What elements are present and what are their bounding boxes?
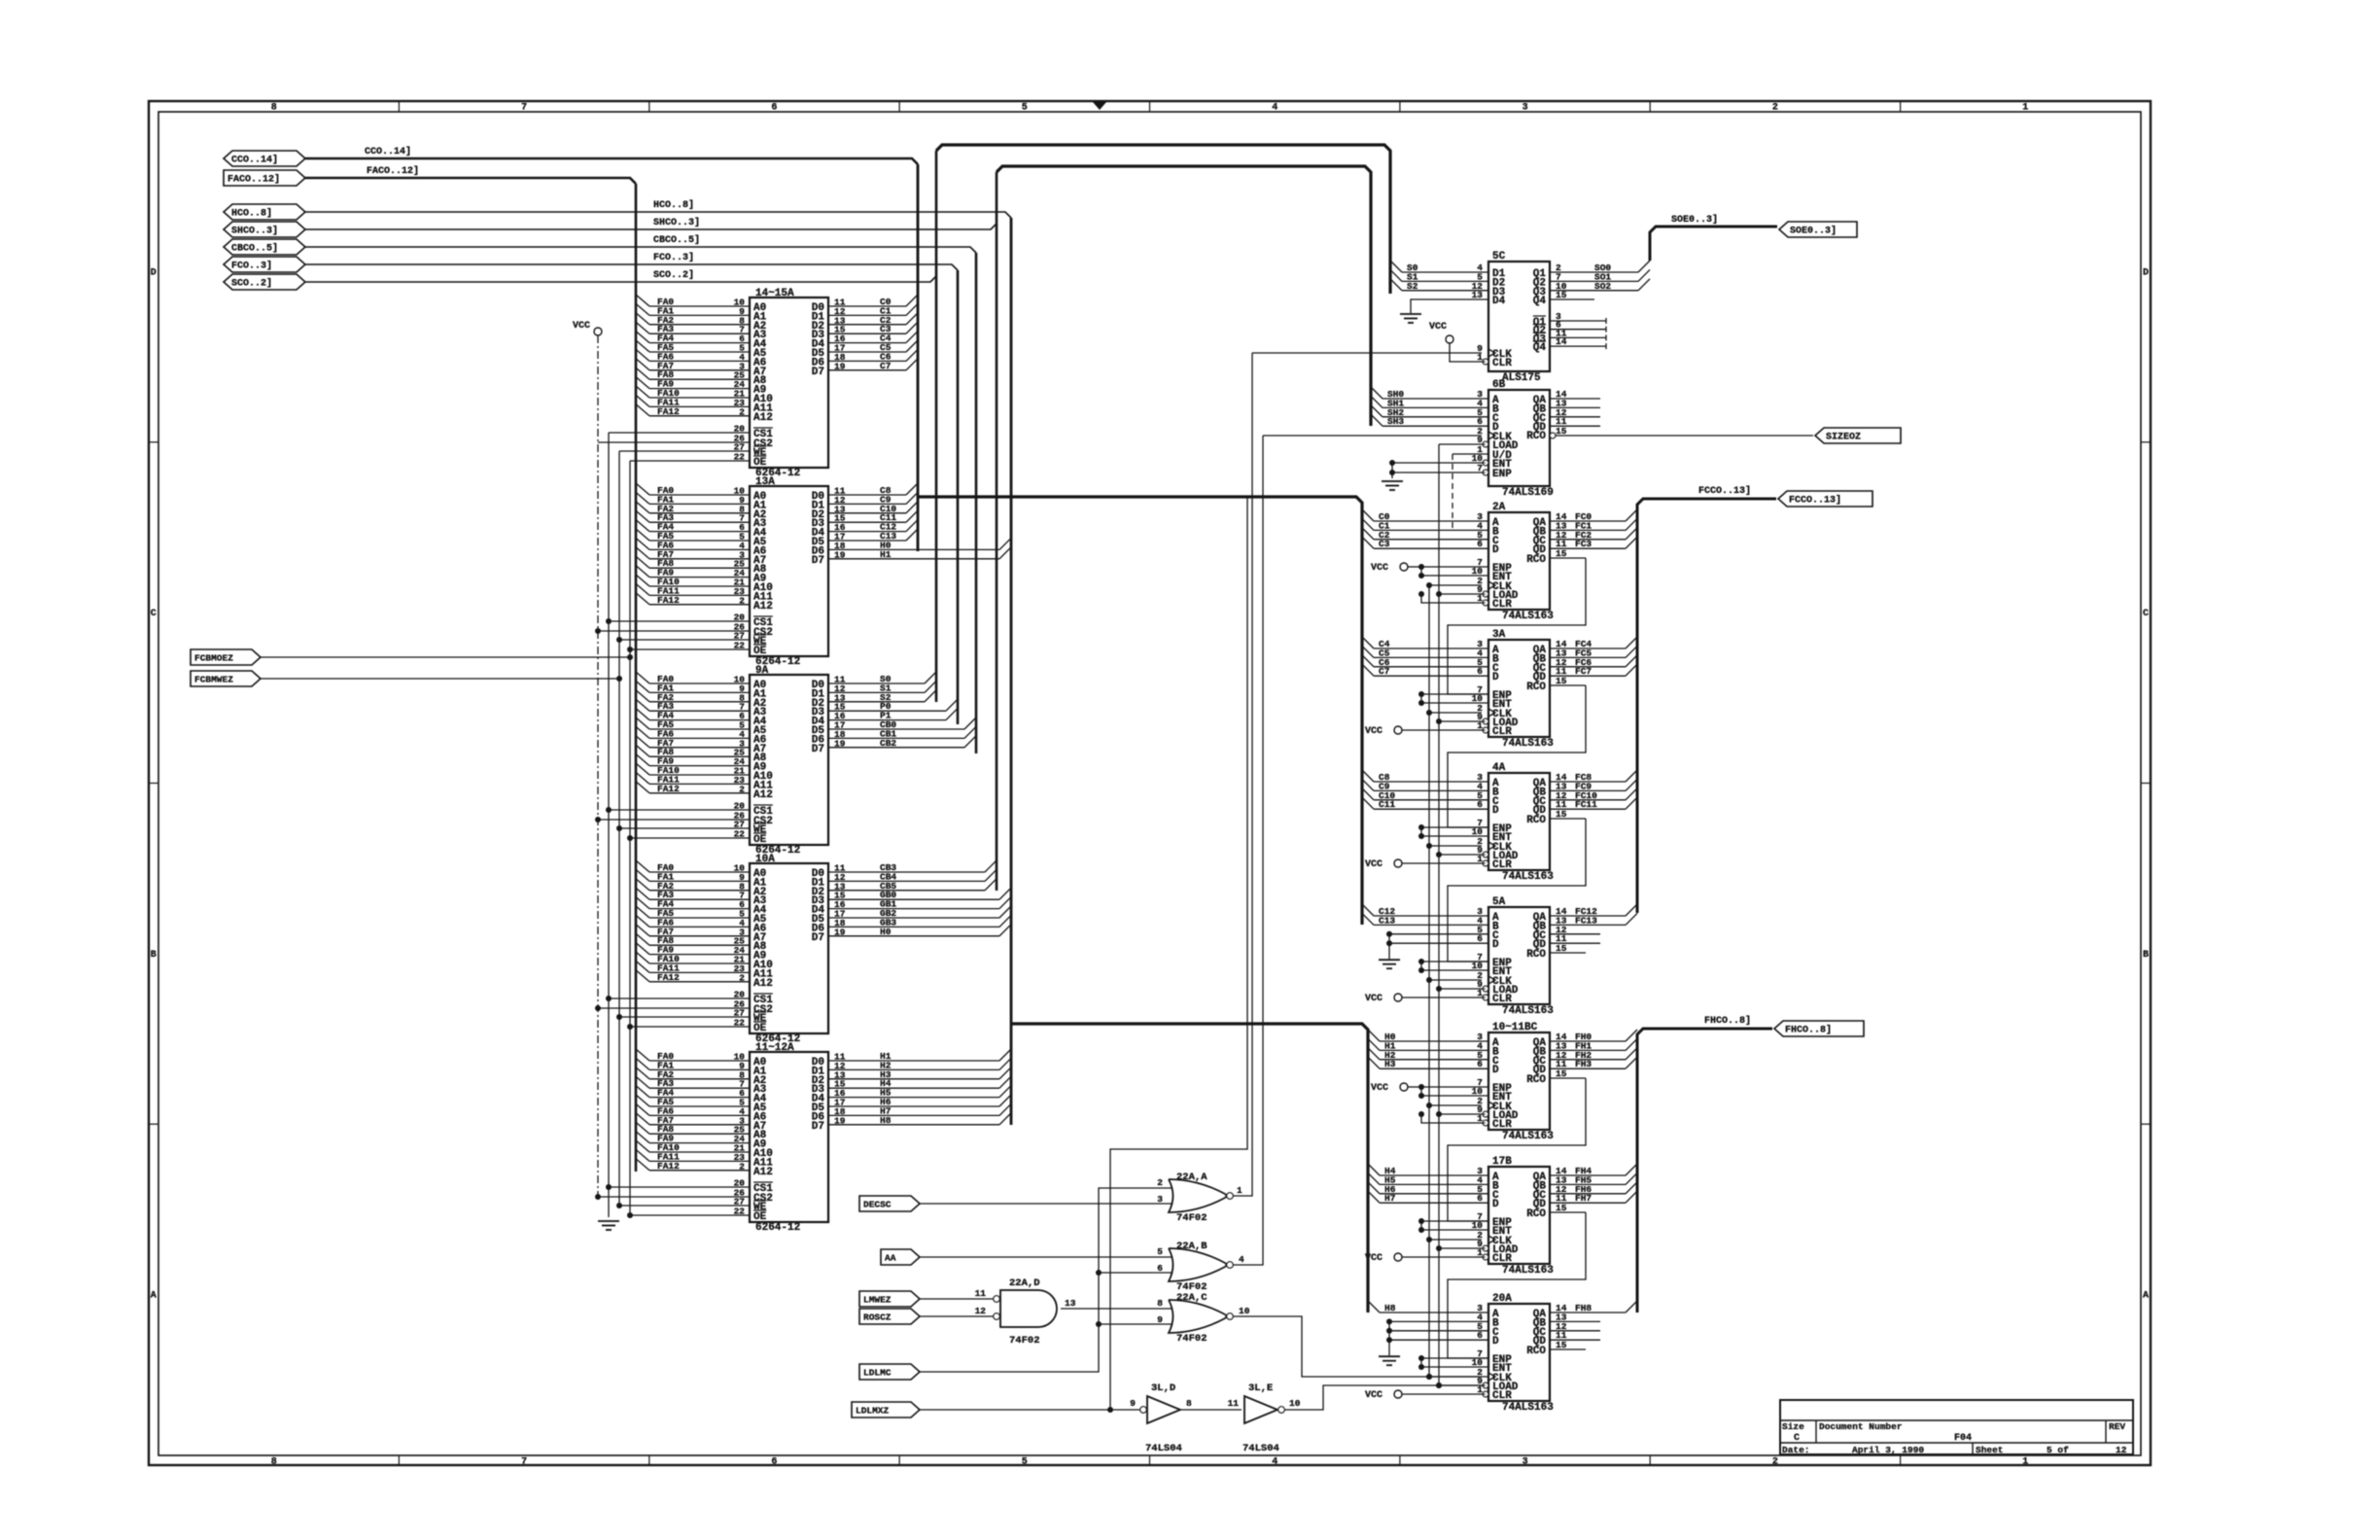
svg-text:74ALS163: 74ALS163 [1502, 611, 1554, 622]
wire C bus horizontal y511 to counters [918, 497, 1362, 925]
power VCC at 3A CLR [1365, 726, 1486, 737]
wire ENP ENT tie 5A [1418, 959, 1488, 973]
wire CLK chain vertical x1470 [1428, 585, 1430, 1377]
svg-text:OE: OE [753, 1023, 767, 1034]
node FCO..3] input tag [224, 257, 305, 272]
svg-text:RCO: RCO [1526, 1074, 1546, 1086]
svg-text:S2: S2 [1407, 281, 1418, 292]
svg-text:3: 3 [1522, 1457, 1528, 1468]
svg-text:4A: 4A [1492, 762, 1506, 774]
wire 22A,A output up to 5C CLK [1233, 353, 1252, 1196]
wire SHCO..3] joins vertical 1025 [305, 224, 997, 229]
svg-text:FA12: FA12 [657, 972, 680, 983]
svg-text:10: 10 [1239, 1306, 1250, 1316]
wire FH bus vertical to FHCO tag [1637, 1015, 1772, 1312]
svg-text:April 3, 1990: April 3, 1990 [1852, 1445, 1924, 1455]
wire input taps 4A [1362, 770, 1488, 810]
svg-text:FCO..3]: FCO..3] [653, 252, 694, 263]
wire CLK feed 4A [1426, 843, 1482, 849]
svg-text:VCC: VCC [1429, 322, 1447, 332]
svg-text:D: D [1492, 1065, 1499, 1076]
svg-text:7: 7 [521, 1457, 527, 1468]
svg-text:A12: A12 [753, 789, 773, 801]
wire ENP ENT tie 20A [1418, 1355, 1488, 1370]
svg-text:SHCO..3]: SHCO..3] [231, 226, 278, 237]
svg-text:2: 2 [1772, 103, 1778, 114]
svg-text:B: B [2143, 950, 2149, 961]
svg-text:22A,A: 22A,A [1176, 1172, 1207, 1183]
wire SH bus top horizontal to 6B [997, 166, 1371, 426]
power VCC at 20A CLR [1365, 1390, 1486, 1401]
svg-text:CLR: CLR [1492, 726, 1512, 738]
wire CBCO..5] to vertical [305, 247, 976, 253]
svg-text:6264-12: 6264-12 [755, 1222, 800, 1234]
wire vertical x1025 [996, 172, 998, 891]
svg-text:SO2: SO2 [1594, 281, 1611, 292]
svg-text:CLR: CLR [1492, 358, 1512, 369]
wire input taps 17B [1368, 1164, 1488, 1204]
svg-text:8: 8 [271, 103, 277, 114]
wire ENP ENT tie 4A [1418, 824, 1488, 839]
svg-text:74F02: 74F02 [1176, 1212, 1207, 1224]
power VCC at 17B CLR [1365, 1253, 1486, 1264]
svg-text:74F02: 74F02 [1009, 1335, 1040, 1347]
wire output taps 20A [1550, 1301, 1637, 1349]
wire CCO..14] bus to vertical [305, 158, 918, 164]
svg-text:Size: Size [1782, 1421, 1804, 1432]
node AA input tag [881, 1249, 920, 1265]
svg-text:CLR: CLR [1492, 599, 1512, 611]
svg-text:74LS04: 74LS04 [1145, 1443, 1182, 1454]
wire CS1 chain vertical x626 to ground [608, 433, 610, 1217]
svg-text:D: D [1492, 544, 1499, 556]
wire 6B LOAD to load chain [1439, 443, 1486, 445]
svg-text:Sheet: Sheet [1976, 1445, 2004, 1455]
svg-text:OE: OE [753, 834, 767, 846]
svg-text:SCO..2]: SCO..2] [231, 278, 272, 290]
wire FC bus vertical to FCCO tag [1637, 485, 1776, 913]
svg-text:FH7: FH7 [1575, 1193, 1592, 1204]
power VCC at 5A CLR [1365, 994, 1486, 1004]
svg-text:4: 4 [1239, 1254, 1244, 1265]
net label CBCO..5] [653, 234, 700, 246]
svg-text:22A,D: 22A,D [1009, 1277, 1040, 1289]
svg-text:VCC: VCC [1365, 1253, 1382, 1264]
wire input taps 2A [1362, 509, 1488, 549]
wire ENP ENT tie 17B [1418, 1218, 1488, 1233]
wire vertical x985 [957, 270, 960, 724]
wire RCO cascade from 2A [1448, 558, 1586, 694]
svg-text:74ALS163: 74ALS163 [1502, 1265, 1554, 1277]
svg-text:74ALS163: 74ALS163 [1502, 1402, 1554, 1414]
counter 4A 74ALS163 [1472, 762, 1567, 883]
wire AA to 22A,B pin5 [920, 1256, 1172, 1258]
svg-text:C11: C11 [1379, 799, 1395, 810]
wire C bus vertical x944 [917, 164, 920, 551]
wire ENP ENT tie 10~11BC [1418, 1084, 1488, 1099]
wire CLR tied to LOAD 2A [1418, 591, 1486, 603]
svg-text:FCBMWEZ: FCBMWEZ [194, 675, 233, 685]
power VCC at 5C [1429, 322, 1486, 362]
wire input taps 10~11BC [1368, 1030, 1488, 1069]
wire LDLMXZ branch up to x1283 [1110, 497, 1247, 1410]
counter 20A 74ALS163 [1472, 1293, 1567, 1414]
wire vertical x963 [935, 151, 938, 702]
node DECSC input tag [859, 1196, 920, 1211]
wire input taps 3A [1362, 637, 1488, 677]
node FCBMWEZ input tag [191, 671, 261, 686]
wire input taps 5A [1362, 904, 1488, 926]
wire H bus vertical x1040 [1010, 218, 1013, 1125]
wire CLK feed 20A [1426, 1374, 1482, 1380]
pin numbers 22A,B [1157, 1246, 1244, 1274]
wire FCBMOEZ to OE chain [261, 656, 630, 658]
svg-text:5C: 5C [1492, 251, 1506, 262]
wire ENP ENT tie 2A [1418, 564, 1488, 578]
svg-text:CB2: CB2 [880, 738, 896, 749]
svg-text:FCBMOEZ: FCBMOEZ [194, 653, 233, 664]
svg-text:FA12: FA12 [657, 1161, 680, 1172]
wire RCO cascade from 3A [1448, 685, 1586, 827]
RAM 14~15A 6264-12 [598, 288, 918, 479]
svg-text:SCO..2]: SCO..2] [653, 269, 694, 281]
svg-text:12: 12 [2116, 1445, 2127, 1455]
svg-text:SIZEOZ: SIZEOZ [1826, 433, 1861, 443]
title block [1780, 1400, 2133, 1455]
svg-text:D: D [151, 267, 157, 278]
svg-text:SHCO..3]: SHCO..3] [653, 217, 700, 228]
svg-text:D7: D7 [812, 1121, 824, 1133]
wire FCO..3] to vertical [305, 264, 958, 270]
svg-text:6: 6 [771, 1457, 777, 1468]
svg-text:10A: 10A [755, 854, 775, 865]
svg-text:A12: A12 [753, 978, 773, 990]
svg-text:3L,E: 3L,E [1248, 1382, 1273, 1394]
svg-text:RCO: RCO [1526, 1346, 1546, 1357]
svg-text:CBCO..5]: CBCO..5] [653, 234, 700, 246]
svg-text:ROSCZ: ROSCZ [863, 1312, 892, 1323]
svg-text:DECSC: DECSC [863, 1200, 892, 1210]
svg-text:4: 4 [1272, 103, 1277, 114]
svg-text:Document Number: Document Number [1819, 1421, 1903, 1432]
svg-text:FH3: FH3 [1575, 1059, 1592, 1069]
wire 3L,E output to LOAD chain and 20A LOAD [1284, 1382, 1486, 1410]
svg-text:LDLMXZ: LDLMXZ [856, 1406, 890, 1417]
svg-text:FC7: FC7 [1575, 666, 1592, 677]
wire SCO..2] joins vertical 963 [305, 276, 936, 282]
svg-text:D4: D4 [1492, 296, 1506, 307]
svg-text:RCO: RCO [1526, 682, 1546, 693]
svg-text:2: 2 [1157, 1177, 1163, 1188]
svg-text:H7: H7 [1384, 1193, 1396, 1204]
svg-text:12: 12 [975, 1306, 987, 1316]
wire H bus horizontal y1053 to counters [1011, 1024, 1368, 1312]
svg-text:11: 11 [975, 1288, 987, 1299]
svg-text:CLR: CLR [1492, 994, 1512, 1005]
svg-text:5: 5 [1022, 103, 1028, 114]
svg-text:2A: 2A [1492, 502, 1506, 513]
svg-text:CLR: CLR [1492, 1390, 1512, 1402]
wire input taps 20A [1368, 1301, 1488, 1313]
svg-text:RCO: RCO [1526, 949, 1546, 961]
svg-text:ENP: ENP [1492, 469, 1512, 480]
svg-text:5: 5 [1022, 1457, 1028, 1468]
wire 6B CLK from 22A,B [1263, 435, 1482, 437]
node SIZEOZ output tag [1815, 428, 1901, 443]
wire LDLMXZ to inverter 3L,D [920, 1407, 1140, 1413]
svg-text:A: A [151, 1291, 157, 1302]
svg-text:3A: 3A [1492, 629, 1506, 641]
wire LOAD feed 4A [1436, 852, 1486, 857]
svg-text:CCO..14]: CCO..14] [231, 155, 278, 166]
net label FCO..3] [653, 252, 694, 263]
svg-text:OE: OE [753, 646, 767, 657]
svg-text:RCO: RCO [1526, 815, 1546, 826]
node FCBMOEZ input tag [191, 649, 261, 665]
svg-text:A12: A12 [753, 412, 773, 424]
wire 6B ENT ENP to ground [1389, 460, 1486, 478]
wire output taps 4A [1550, 770, 1637, 819]
svg-text:FCCO..13]: FCCO..13] [1789, 495, 1841, 507]
svg-text:FA12: FA12 [657, 595, 680, 606]
wire CLK feed 3A [1426, 710, 1482, 716]
svg-text:13: 13 [1065, 1298, 1076, 1309]
svg-text:22A,C: 22A,C [1176, 1292, 1207, 1304]
net label CCO..14] [365, 146, 411, 157]
wire LMWEZ to 22A,D pin11 [920, 1298, 994, 1300]
net label SCO..2] [653, 269, 694, 281]
RAM 13A 6264-12 [595, 476, 1011, 668]
svg-text:FHCO..8]: FHCO..8] [1785, 1025, 1832, 1036]
wire grounded inputs 20A [1379, 1318, 1488, 1365]
svg-text:C7: C7 [880, 361, 892, 371]
svg-text:SH3: SH3 [1387, 416, 1404, 427]
wire LOAD feed 2A [1436, 591, 1486, 597]
svg-text:11~12A: 11~12A [755, 1042, 794, 1054]
RAM 9A 6264-12 [595, 665, 976, 857]
svg-text:ALS175: ALS175 [1502, 372, 1541, 384]
svg-text:5A: 5A [1492, 896, 1506, 908]
svg-text:Q4: Q4 [1533, 342, 1547, 354]
pin numbers 22A,A [1157, 1177, 1242, 1205]
inverter 3L,E 74LS04 [1228, 1382, 1301, 1454]
wire SOE bus to tag [1650, 214, 1777, 261]
svg-text:HCO..8]: HCO..8] [653, 199, 694, 211]
RAM 10A 6264-12 [595, 854, 1011, 1045]
svg-text:10~11BC: 10~11BC [1492, 1022, 1538, 1033]
wire VCC dash-dot vertical x615 (CS2 chain) [573, 321, 602, 1197]
svg-text:F04: F04 [1954, 1433, 1972, 1444]
svg-text:VCC: VCC [1365, 1390, 1382, 1401]
svg-text:H8: H8 [880, 1115, 892, 1126]
wire LOAD chain vertical x1480 [1438, 444, 1440, 1385]
wire 22A,D output to 22A,C pin8 [1061, 1308, 1172, 1310]
svg-text:11: 11 [1228, 1398, 1240, 1409]
node ROSCZ input tag [859, 1309, 920, 1324]
wire grounded inputs 5A [1379, 931, 1488, 968]
wire RCO cascade from 4A [1448, 819, 1586, 962]
svg-text:D: D [2143, 267, 2149, 278]
svg-text:1: 1 [2022, 1457, 2028, 1468]
wire 6B RCO to SIZEOZ [1556, 435, 1813, 437]
wire 22A,C output to CLK chain and 20A CLK [1233, 1316, 1488, 1380]
svg-text:FACO..12]: FACO..12] [227, 174, 280, 186]
svg-text:FA12: FA12 [657, 784, 680, 794]
svg-text:FCO..3]: FCO..3] [231, 261, 272, 272]
wire OE chain vertical x648 [627, 461, 633, 1215]
svg-text:CLR: CLR [1492, 1119, 1512, 1131]
svg-text:VCC: VCC [1365, 994, 1382, 1004]
svg-text:VCC: VCC [1371, 1083, 1388, 1094]
svg-text:5 of: 5 of [2047, 1445, 2069, 1455]
wire WE chain vertical x637 [616, 451, 622, 1206]
svg-text:D: D [1492, 1199, 1499, 1210]
svg-text:17B: 17B [1492, 1156, 1512, 1168]
svg-text:OE: OE [753, 457, 767, 469]
node FHCO..8] output tag [1774, 1021, 1864, 1036]
svg-text:CCO..14]: CCO..14] [365, 146, 411, 157]
svg-text:13A: 13A [755, 476, 775, 488]
svg-text:VCC: VCC [1365, 726, 1382, 737]
svg-text:5: 5 [1157, 1246, 1163, 1257]
svg-text:D7: D7 [812, 744, 824, 755]
wire 3L,D to 3L,E [1180, 1409, 1242, 1411]
wire 5C D4 to ground [1411, 299, 1488, 313]
wire LOAD feed 17B [1436, 1245, 1486, 1251]
wire ENP ENT tie 3A [1418, 691, 1488, 706]
wire output taps 3A [1550, 637, 1637, 685]
svg-text:RCO: RCO [1526, 1208, 1546, 1220]
node SHCO..3] input tag [224, 222, 305, 237]
svg-text:Q4: Q4 [1533, 296, 1547, 307]
svg-text:LMWEZ: LMWEZ [863, 1295, 892, 1306]
power VCC at 10~11BC ENP [1371, 1083, 1421, 1094]
svg-text:RCO: RCO [1526, 554, 1546, 566]
svg-text:D7: D7 [812, 932, 824, 944]
svg-text:1: 1 [1237, 1185, 1242, 1196]
svg-text:LDLMC: LDLMC [863, 1368, 892, 1379]
svg-text:3: 3 [1522, 103, 1528, 114]
counter 2A 74ALS163 [1472, 502, 1567, 622]
svg-text:D7: D7 [812, 367, 824, 378]
svg-text:74ALS163: 74ALS163 [1502, 871, 1554, 883]
wire vertical x1004 [975, 253, 978, 753]
svg-text:FC13: FC13 [1575, 915, 1597, 926]
wire output taps 10~11BC [1550, 1030, 1637, 1078]
node FCCO..13] output tag [1778, 491, 1872, 507]
svg-text:FH8: FH8 [1575, 1303, 1592, 1313]
NOR gate 22A,A 74F02 [1169, 1172, 1233, 1224]
svg-text:CLR: CLR [1492, 859, 1512, 871]
node LDLMXZ input tag [852, 1402, 920, 1417]
svg-text:1: 1 [2022, 103, 2028, 114]
wire CLK feed 2A [1426, 582, 1482, 588]
wire output taps 2A [1550, 509, 1637, 558]
wire LOAD feed 5A [1436, 986, 1486, 992]
svg-text:RCO: RCO [1526, 431, 1546, 442]
net label HCO..8] [653, 199, 694, 211]
svg-text:H0: H0 [880, 927, 892, 937]
pin numbers 22A,C [1157, 1298, 1249, 1325]
wire SH0-SH3 taps into 6B [1371, 387, 1488, 427]
svg-text:VCC: VCC [573, 321, 590, 332]
svg-text:4: 4 [1272, 1457, 1277, 1468]
flip-flop 5C ALS175 [1472, 251, 1606, 384]
svg-text:H3: H3 [1384, 1059, 1396, 1069]
wire LOAD feed 10~11BC [1436, 1111, 1486, 1117]
svg-text:A12: A12 [753, 1167, 773, 1178]
svg-text:74ALS169: 74ALS169 [1502, 487, 1554, 499]
svg-text:FC3: FC3 [1575, 539, 1592, 549]
svg-text:9A: 9A [755, 665, 769, 677]
svg-text:74F02: 74F02 [1176, 1333, 1207, 1345]
svg-text:14~15A: 14~15A [755, 288, 794, 299]
svg-text:FHCO..8]: FHCO..8] [1704, 1015, 1751, 1027]
svg-text:8: 8 [1186, 1398, 1192, 1409]
svg-text:20A: 20A [1492, 1293, 1512, 1305]
svg-text:A12: A12 [753, 601, 773, 612]
svg-text:H1: H1 [880, 549, 892, 560]
wire DECSC to 22A,A pin3 [920, 1203, 1172, 1205]
svg-text:C13: C13 [1379, 915, 1395, 926]
node LDLMC input tag [859, 1364, 920, 1380]
svg-text:FC11: FC11 [1575, 799, 1597, 810]
wire output taps 17B [1550, 1164, 1637, 1212]
NOR gate 22A,B 74F02 [1169, 1241, 1233, 1293]
svg-text:CLR: CLR [1492, 1253, 1512, 1265]
svg-text:B: B [151, 950, 157, 961]
svg-text:C7: C7 [1379, 666, 1390, 677]
wire 22A,B output up to 6B CLK [1233, 436, 1263, 1265]
svg-text:10: 10 [1289, 1398, 1301, 1409]
svg-text:C: C [2143, 609, 2149, 619]
wire S bus top horizontal to 5C [936, 145, 1390, 294]
wire HCO..8] to vertical [305, 212, 1011, 218]
wire RCO cascade from 17B [1448, 1212, 1586, 1358]
svg-text:8: 8 [1157, 1298, 1163, 1309]
svg-text:2: 2 [1772, 1457, 1778, 1468]
svg-text:FACO..12]: FACO..12] [367, 165, 419, 177]
net label SHCO..3] [653, 217, 700, 228]
svg-text:AA: AA [885, 1253, 896, 1264]
wire 5C outputs SO0-SO2 to SOE bus [1550, 261, 1650, 299]
svg-text:74ALS163: 74ALS163 [1502, 738, 1554, 750]
svg-text:3L,D: 3L,D [1151, 1382, 1175, 1394]
svg-text:VCC: VCC [1371, 563, 1388, 574]
wire LOAD feed 3A [1436, 718, 1486, 724]
svg-text:9: 9 [1130, 1398, 1136, 1409]
svg-text:D: D [1492, 1336, 1499, 1347]
node CCO..14] input tag [224, 151, 305, 166]
ground below RAM column [598, 1221, 619, 1230]
wire LOAD feed 20A [1436, 1382, 1486, 1388]
svg-text:H8: H8 [1384, 1303, 1396, 1313]
wire ROSCZ to 22A,D pin12 [920, 1315, 994, 1317]
svg-text:6: 6 [771, 103, 777, 114]
svg-text:SOE0..3]: SOE0..3] [1790, 226, 1837, 237]
ground at 5C D4 [1400, 314, 1421, 323]
svg-text:7: 7 [521, 103, 527, 114]
svg-text:FA12: FA12 [657, 406, 680, 417]
wire 6B U/D stub [1452, 454, 1488, 530]
svg-text:CBCO..5]: CBCO..5] [231, 243, 278, 255]
NOR gate 22A,C 74F02 [1169, 1292, 1233, 1345]
svg-text:D: D [1492, 672, 1499, 683]
sheet border frame [149, 101, 2151, 1468]
svg-text:C: C [1794, 1433, 1800, 1444]
wire CLK feed 17B [1426, 1237, 1482, 1242]
svg-text:C: C [151, 609, 157, 619]
